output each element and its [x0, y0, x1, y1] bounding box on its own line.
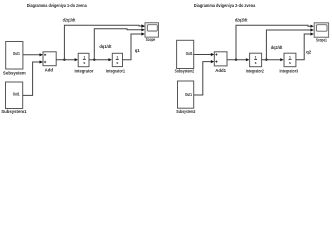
svg-text:Integrator3: Integrator3 — [280, 68, 299, 73]
svg-text:Add: Add — [45, 68, 54, 73]
svg-text:Scope: Scope — [146, 37, 156, 42]
svg-text:Integrator: Integrator — [75, 69, 94, 74]
svg-text:Diagramma dvigeniya 1-do zvena: Diagramma dvigeniya 1-do zvena — [27, 3, 88, 8]
svg-text:Integrator2: Integrator2 — [246, 68, 264, 73]
svg-text:Subsystem1: Subsystem1 — [1, 109, 27, 114]
svg-text:Out1: Out1 — [13, 51, 20, 56]
svg-text:Integrator1: Integrator1 — [106, 69, 126, 74]
svg-text:q1: q1 — [135, 48, 141, 53]
svg-text:s: s — [255, 61, 257, 65]
svg-text:Out1: Out1 — [13, 92, 20, 97]
svg-text:d2q1/dt: d2q1/dt — [63, 17, 76, 22]
svg-text:Out1: Out1 — [185, 92, 192, 97]
svg-text:Subsystem: Subsystem — [3, 70, 26, 75]
svg-text:s: s — [116, 61, 118, 65]
svg-text:dq1/dt: dq1/dt — [99, 44, 112, 49]
svg-text:s: s — [289, 61, 291, 65]
svg-text:Subsystem3: Subsystem3 — [176, 109, 195, 114]
svg-text:Subsystem2: Subsystem2 — [175, 69, 195, 74]
svg-text:Diagramma dvigeniya 2-do zvena: Diagramma dvigeniya 2-do zvena — [194, 3, 256, 8]
svg-text:Scope1: Scope1 — [316, 38, 327, 43]
svg-text:q2: q2 — [306, 50, 312, 55]
svg-text:Add1: Add1 — [215, 68, 226, 73]
svg-text:Out1: Out1 — [186, 51, 193, 56]
svg-text:s: s — [83, 61, 85, 65]
svg-text:dq2/dt: dq2/dt — [271, 45, 283, 50]
svg-text:d2q2/dt: d2q2/dt — [235, 17, 248, 22]
